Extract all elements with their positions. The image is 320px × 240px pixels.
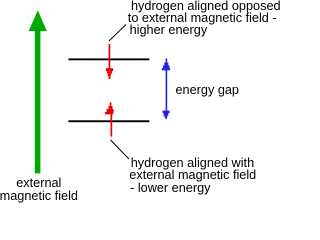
lower energy level line [68, 120, 149, 122]
blue energy-gap double arrow bottom head [163, 111, 170, 120]
leader line to lower text [111, 140, 130, 159]
red up arrow (spin aligned) head [105, 102, 114, 114]
blue energy-gap double arrow top head [162, 59, 170, 71]
red up arrow (spin aligned) shaft [111, 114, 113, 137]
label: energy gap [176, 84, 240, 96]
label: lower energy state caption line 2 [129, 169, 256, 181]
label: lower energy state caption line 1 [131, 157, 254, 169]
green arrow: external magnetic field (shaft) [35, 29, 41, 173]
label: external magnetic field (under green arrow) [0, 177, 99, 202]
label: lower energy state caption line 3 [130, 182, 210, 194]
upper energy level line [68, 58, 149, 60]
green arrow: external magnetic field (head) [29, 10, 47, 31]
label: higher energy state caption line 3 [130, 24, 208, 36]
red down arrow (spin opposed) shaft [109, 44, 111, 70]
red down arrow (spin opposed) head [106, 68, 113, 79]
blue energy-gap double arrow shaft [166, 70, 168, 111]
label: higher energy state caption line 1 [131, 0, 281, 12]
label: higher energy state caption line 2 [128, 12, 277, 24]
leader line to upper text [109, 25, 126, 42]
